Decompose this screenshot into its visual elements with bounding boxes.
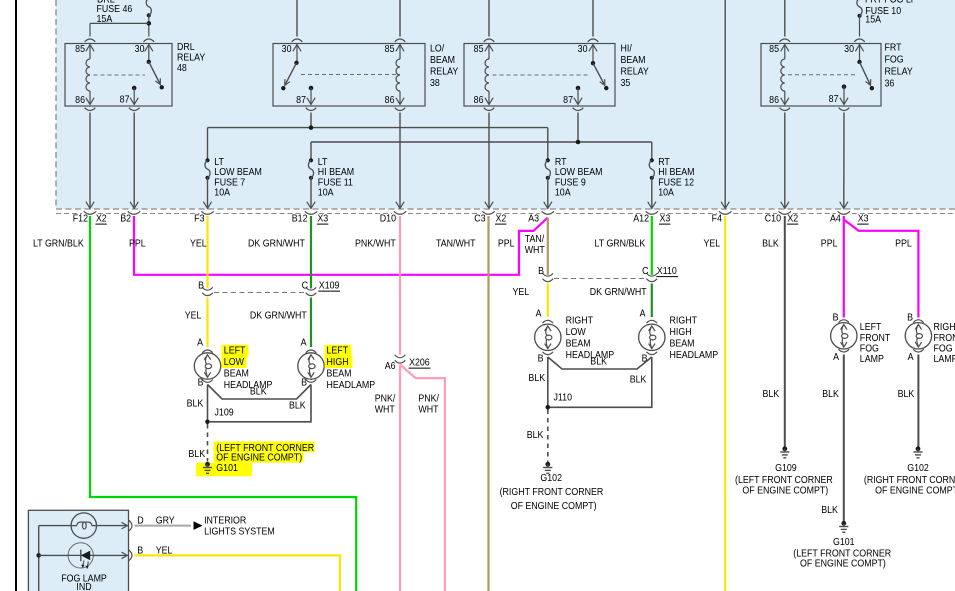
- svg-text:A: A: [833, 351, 839, 363]
- junction rail: [36, 553, 41, 558]
- svg-text:X110: X110: [657, 265, 677, 277]
- relay box FRT FOG 36: [761, 44, 881, 107]
- terminal cap right low A: [543, 320, 554, 323]
- svg-text:G101: G101: [216, 462, 238, 474]
- wire fuse9 to A3: [547, 178, 549, 207]
- svg-text:A: A: [536, 308, 542, 320]
- svg-text:YEL: YEL: [190, 238, 207, 250]
- svg-text:10A: 10A: [318, 187, 334, 199]
- svg-text:BLK: BLK: [250, 386, 267, 398]
- wire LED to B pin: [93, 554, 126, 556]
- svg-text:BLK: BLK: [821, 504, 838, 516]
- wire DRL87 to B2: [133, 113, 135, 208]
- svg-text:BLK: BLK: [763, 388, 780, 400]
- svg-text:TAN/WHT: TAN/WHT: [436, 238, 476, 250]
- svg-text:LOW: LOW: [224, 356, 245, 368]
- HI internal dashed link: [493, 74, 590, 76]
- svg-text:BLK: BLK: [187, 398, 204, 410]
- svg-text:BLK: BLK: [590, 356, 607, 368]
- terminal cap left fog B: [839, 320, 850, 323]
- svg-text:HIGH: HIGH: [327, 356, 349, 368]
- wire GRY to interior lights: [135, 525, 192, 527]
- wire fuse46 branch to pin85: [90, 22, 149, 24]
- svg-text:38: 38: [430, 77, 440, 89]
- wire YEL F3: [206, 216, 208, 289]
- svg-text:FOG: FOG: [885, 54, 904, 66]
- FOG LAMP IND box: [28, 510, 128, 591]
- wire BLK right fog: [917, 355, 919, 448]
- connector X110 C terminal: [647, 273, 658, 276]
- svg-text:HI/: HI/: [621, 43, 633, 55]
- connector X110 B terminal: [543, 273, 554, 276]
- fuse F10 FRT FOG FUSE 10 15A: [857, 0, 861, 1]
- svg-text:C10: C10: [765, 213, 781, 225]
- svg-text:10A: 10A: [214, 187, 230, 199]
- svg-text:FRT: FRT: [885, 42, 902, 54]
- terminal cap HI pin30: [588, 39, 599, 42]
- svg-text:86: 86: [385, 94, 395, 106]
- svg-text:LT GRN/BLK: LT GRN/BLK: [33, 238, 84, 250]
- svg-text:G102: G102: [907, 462, 929, 474]
- junction J110: [546, 405, 551, 410]
- highlight LEFT LOW: [222, 345, 249, 357]
- block left dashed border: [55, 0, 57, 209]
- wire BLK right lamps link: [548, 357, 652, 369]
- fuse F11 LT HI BEAM FUSE 11 10A: [309, 158, 313, 162]
- wire BLK left lamps link: [208, 385, 312, 400]
- terminal cap FOG pin85: [780, 39, 791, 42]
- wire DK GRN/WHT to left high lamp: [310, 298, 312, 348]
- svg-text:BLK: BLK: [188, 448, 205, 460]
- wire fuse7 to F3: [207, 178, 209, 207]
- wire BLK right low down: [547, 357, 549, 406]
- svg-text:J110: J110: [554, 392, 573, 404]
- indicator lamp symbol: [71, 513, 96, 538]
- FOG pin 87: [842, 84, 847, 89]
- terminal cup exit x=843.8: [838, 211, 850, 214]
- connector row dashed line: [56, 213, 82, 215]
- svg-text:85: 85: [75, 43, 85, 55]
- wire bus to fuse7: [207, 128, 209, 159]
- svg-text:G109: G109: [775, 462, 797, 474]
- svg-text:PPL: PPL: [129, 238, 146, 250]
- svg-text:F3: F3: [194, 213, 204, 225]
- wire fuse11 to B12: [310, 178, 312, 207]
- svg-text:86: 86: [75, 94, 85, 106]
- svg-text:B: B: [538, 353, 544, 365]
- HI switch: [589, 45, 597, 52]
- svg-text:35: 35: [621, 77, 631, 89]
- wire bus to fuse9: [547, 128, 549, 159]
- relay box DRL 48: [65, 44, 172, 107]
- lamp LEFT HIGH BEAM HEADLAMP: [298, 353, 324, 379]
- svg-text:HEADLAMP: HEADLAMP: [327, 379, 376, 391]
- wire bus to fuse12: [651, 142, 653, 159]
- low beam bus: [208, 127, 548, 129]
- svg-text:OF ENGINE COMPT): OF ENGINE COMPT): [875, 485, 955, 497]
- fuse F9 RT LOW BEAM FUSE 9 10A: [546, 158, 550, 162]
- terminal cap DRL pin85: [85, 39, 96, 42]
- terminal cup exit x=207.5: [201, 211, 213, 214]
- svg-text:BEAM: BEAM: [566, 338, 591, 350]
- arrow interior lights system: [194, 521, 203, 530]
- power distribution block (shaded area): [56, 0, 955, 209]
- wire rail to LED: [39, 554, 68, 556]
- svg-text:A3: A3: [528, 213, 539, 225]
- svg-text:F12: F12: [73, 213, 88, 225]
- wire LT GRN/BLK F12: [90, 216, 356, 591]
- svg-text:87: 87: [563, 94, 573, 106]
- svg-text:X206: X206: [409, 357, 430, 369]
- relay box HI BEAM 35: [464, 44, 615, 107]
- terminal cup exit x=784.8: [779, 211, 791, 214]
- LO switch: [293, 45, 301, 52]
- svg-text:A4: A4: [830, 213, 841, 225]
- svg-text:PPL: PPL: [498, 238, 515, 250]
- connector X109 B terminal: [202, 287, 213, 290]
- wire feed HI pin30: [592, 0, 594, 37]
- terminal cup right low B: [543, 352, 554, 355]
- svg-text:PNK/WHT: PNK/WHT: [355, 238, 396, 250]
- connector X206: [395, 355, 406, 358]
- svg-text:87: 87: [829, 93, 839, 105]
- wire lamp to D pin: [96, 525, 126, 527]
- svg-text:10A: 10A: [555, 187, 571, 199]
- wire BLK J110 to G102 dashed: [547, 410, 549, 464]
- ground G109: [782, 446, 787, 451]
- wire fuse12 to A12: [651, 178, 653, 207]
- svg-text:G102: G102: [540, 472, 562, 484]
- wire DRL86 to F12: [89, 113, 91, 208]
- terminal cup LO pin87: [306, 108, 317, 111]
- terminal cap DRL pin30: [144, 39, 155, 42]
- svg-text:HEADLAMP: HEADLAMP: [670, 349, 719, 361]
- svg-text:WHT: WHT: [375, 404, 395, 416]
- svg-text:J109: J109: [215, 407, 234, 419]
- svg-text:C: C: [642, 265, 648, 277]
- svg-text:B2: B2: [120, 213, 131, 225]
- hi beam bus: [311, 141, 652, 143]
- wire bus to fuse11: [310, 142, 312, 159]
- svg-text:A: A: [640, 308, 646, 320]
- svg-text:A: A: [301, 337, 307, 349]
- fuse F7 LT LOW BEAM FUSE 7 10A: [205, 158, 209, 162]
- wire YEL to right low lamp: [547, 284, 549, 318]
- svg-text:RELAY: RELAY: [621, 66, 650, 78]
- highlight G101 text: [214, 442, 315, 453]
- wire LT GRN/BLK A12: [651, 216, 653, 275]
- connector X110 dashed: [554, 278, 645, 280]
- svg-text:B: B: [833, 312, 839, 324]
- svg-text:LAMP: LAMP: [860, 353, 884, 365]
- svg-text:86: 86: [474, 94, 484, 106]
- terminal cap right fog B: [913, 320, 924, 323]
- svg-text:OF ENGINE COMPT): OF ENGINE COMPT): [511, 500, 597, 512]
- wire YEL to left low lamp: [206, 298, 208, 348]
- terminal cap LO pin85: [395, 39, 406, 42]
- wire BLK left low down: [207, 385, 209, 421]
- lamp RIGHT LOW BEAM HEADLAMP: [535, 324, 561, 350]
- terminal cup right high B: [647, 352, 658, 355]
- svg-text:BLK: BLK: [289, 400, 306, 412]
- svg-text:85: 85: [474, 43, 484, 55]
- svg-text:(RIGHT FRONT CORNER: (RIGHT FRONT CORNER: [500, 486, 604, 498]
- svg-text:X3: X3: [858, 213, 869, 225]
- terminal B pin: [129, 550, 132, 561]
- fuse F12r RT HI BEAM FUSE 12 10A: [650, 158, 654, 162]
- svg-text:OF ENGINE COMPT): OF ENGINE COMPT): [800, 558, 886, 570]
- svg-text:RIGHT: RIGHT: [566, 315, 594, 327]
- svg-text:OF ENGINE COMPT): OF ENGINE COMPT): [742, 485, 828, 497]
- svg-text:X109: X109: [319, 280, 340, 292]
- svg-text:RIGHT: RIGHT: [670, 315, 698, 327]
- svg-text:30: 30: [135, 43, 145, 55]
- lamp RIGHT FRONT FOG LAMP: [905, 323, 931, 349]
- svg-text:B12: B12: [292, 213, 308, 225]
- wire HI86 to C3: [488, 113, 490, 208]
- wire feed HI pin85: [488, 0, 490, 37]
- wire PPL A4 right fog branch: [844, 220, 919, 318]
- ground G102 right: [916, 446, 921, 451]
- terminal cup FOG pin86: [780, 108, 791, 111]
- svg-text:C3: C3: [474, 213, 485, 225]
- svg-text:87: 87: [296, 94, 306, 106]
- FOG coil: [781, 45, 789, 52]
- terminal D pin: [129, 520, 132, 531]
- terminal cap left high A: [306, 350, 317, 353]
- terminal cup exit x=488.5: [482, 211, 494, 214]
- svg-text:BEAM: BEAM: [621, 54, 646, 66]
- relay box LO BEAM 38: [273, 44, 425, 107]
- terminal cup left low B: [202, 380, 213, 383]
- svg-text:BLK: BLK: [898, 388, 915, 400]
- svg-text:85: 85: [769, 43, 779, 55]
- HI coil: [485, 45, 493, 52]
- wire TAN/WHT C3: [487, 216, 489, 591]
- svg-text:BLK: BLK: [822, 388, 839, 400]
- FOG switch: [855, 45, 863, 52]
- svg-text:LT GRN/BLK: LT GRN/BLK: [595, 238, 646, 250]
- svg-text:BLK: BLK: [630, 374, 647, 386]
- wire feed LO pin30: [296, 0, 298, 37]
- svg-text:LIGHTS SYSTEM: LIGHTS SYSTEM: [204, 526, 275, 538]
- wire rail: [38, 526, 40, 591]
- svg-text:RELAY: RELAY: [885, 66, 914, 78]
- wire BLK left high down: [210, 385, 311, 422]
- svg-text:X2: X2: [787, 213, 798, 225]
- svg-text:A: A: [197, 337, 203, 349]
- svg-text:DK GRN/WHT: DK GRN/WHT: [590, 286, 647, 298]
- svg-text:G101: G101: [833, 536, 855, 548]
- wire YEL ind: [135, 555, 340, 591]
- svg-text:BEAM: BEAM: [670, 338, 695, 350]
- svg-text:B: B: [538, 265, 544, 277]
- DRL coil: [86, 45, 94, 52]
- connector X109 C terminal: [306, 287, 317, 290]
- terminal cup exit x=90: [84, 211, 96, 214]
- svg-text:YEL: YEL: [704, 238, 721, 250]
- svg-text:LO/: LO/: [430, 43, 445, 55]
- svg-text:X2: X2: [96, 213, 107, 225]
- junction J109: [205, 420, 210, 425]
- LED indicator symbol: [68, 543, 93, 568]
- svg-text:LOW: LOW: [566, 326, 587, 338]
- DRL internal dashed link: [94, 74, 146, 76]
- wire LO87 to low-beam bus: [310, 113, 312, 128]
- fuse F46 DRL FUSE 46 15A: [147, 0, 151, 1]
- svg-text:D10: D10: [380, 213, 396, 225]
- svg-text:BEAM: BEAM: [327, 368, 352, 380]
- svg-text:86: 86: [769, 94, 779, 106]
- svg-text:WHT: WHT: [418, 404, 438, 416]
- svg-text:RELAY: RELAY: [430, 66, 459, 78]
- terminal cup left high B: [306, 380, 317, 383]
- wire DK GRN/WHT to right high lamp: [651, 284, 653, 318]
- svg-text:B: B: [198, 280, 204, 292]
- ground G101 right: [841, 521, 846, 526]
- terminal cup right fog A: [913, 349, 924, 352]
- svg-text:LEFT: LEFT: [224, 345, 246, 357]
- svg-text:48: 48: [177, 62, 187, 74]
- svg-text:87: 87: [120, 94, 130, 106]
- svg-text:BEAM: BEAM: [224, 368, 249, 380]
- LO internal dashed link: [301, 74, 396, 76]
- svg-text:BLK: BLK: [528, 372, 545, 384]
- svg-text:85: 85: [385, 43, 395, 55]
- wire HI87 to hi-beam bus: [577, 113, 579, 143]
- wire TAN/WHT A3: [547, 218, 549, 276]
- svg-text:YEL: YEL: [513, 286, 530, 298]
- terminal cup exit x=725.2: [719, 211, 731, 214]
- terminal cup DRL pin87: [129, 108, 140, 111]
- terminal cup exit x=547.8: [542, 211, 554, 214]
- svg-text:30: 30: [282, 43, 292, 55]
- page border: [15, 0, 17, 591]
- svg-text:BLK: BLK: [527, 429, 544, 441]
- wire FOG87 to A4: [843, 113, 845, 208]
- wire BLK J109 to G101 dashed: [207, 424, 209, 462]
- wire PNK/WHT below X206: [399, 365, 401, 591]
- svg-text:X3: X3: [660, 213, 671, 225]
- svg-text:BEAM: BEAM: [430, 54, 455, 66]
- svg-text:WHT: WHT: [525, 244, 545, 256]
- svg-text:B: B: [907, 312, 913, 324]
- svg-text:LAMP: LAMP: [934, 353, 955, 365]
- svg-text:10A: 10A: [658, 187, 674, 199]
- svg-text:15A: 15A: [865, 14, 881, 26]
- terminal cup exit x=651.8: [646, 211, 658, 214]
- block bottom dashed border: [56, 208, 955, 210]
- terminal cup exit x=134: [128, 211, 140, 214]
- wire BLK right high down: [550, 357, 652, 407]
- wire BLK left fog: [843, 355, 845, 522]
- HI pin 87: [576, 86, 581, 91]
- svg-text:A: A: [908, 351, 914, 363]
- wire F4 feed: [724, 0, 726, 207]
- terminal cap FOG pin30: [854, 39, 865, 42]
- svg-text:A6: A6: [385, 360, 396, 372]
- svg-text:PPL: PPL: [821, 238, 838, 250]
- wire feed LO pin85: [399, 0, 401, 37]
- terminal cup FOG pin87: [839, 108, 850, 111]
- svg-text:30: 30: [578, 43, 588, 55]
- svg-text:DK GRN/WHT: DK GRN/WHT: [248, 238, 305, 250]
- svg-text:A12: A12: [633, 213, 649, 225]
- svg-text:30: 30: [844, 43, 854, 55]
- terminal cap right high A: [647, 320, 658, 323]
- lamp LEFT FRONT FOG LAMP: [831, 323, 857, 349]
- wire YEL F4: [724, 216, 726, 591]
- wire PPL B2 to A3: [134, 216, 548, 275]
- terminal cup exit x=400: [394, 211, 406, 214]
- terminal cup HI pin87: [573, 108, 584, 111]
- wire DK GRN/WHT B12: [310, 216, 312, 289]
- svg-text:B: B: [198, 377, 204, 389]
- connector X109 dashed: [214, 292, 304, 294]
- wire PNK/WHT D10: [399, 216, 401, 355]
- highlight LEFT HIGH: [325, 345, 352, 357]
- lamp LEFT LOW BEAM HEADLAMP: [194, 353, 220, 379]
- DRL pin 87: [132, 86, 137, 91]
- svg-text:PPL: PPL: [895, 238, 912, 250]
- LO coil: [396, 45, 404, 52]
- terminal cup DRL pin86: [85, 108, 96, 111]
- ground G102 mid: [545, 462, 550, 467]
- terminal cap LO pin30: [292, 39, 303, 42]
- wire LO86 to D10: [399, 113, 401, 208]
- wire feed FOG pin85: [784, 0, 786, 37]
- wire FOG86 to C10: [784, 113, 786, 208]
- svg-text:X3: X3: [317, 213, 328, 225]
- FOG internal dashed link: [788, 74, 856, 76]
- terminal cap HI pin85: [484, 39, 495, 42]
- svg-text:LEFT: LEFT: [327, 345, 349, 357]
- terminal cup left fog A: [839, 349, 850, 352]
- wire BLK C10: [784, 216, 786, 447]
- svg-text:YEL: YEL: [185, 310, 202, 322]
- svg-text:F4: F4: [712, 213, 723, 225]
- wire PNK/WHT branch: [400, 365, 445, 591]
- svg-text:X2: X2: [496, 213, 507, 225]
- svg-text:IND: IND: [76, 581, 91, 591]
- svg-text:HIGH: HIGH: [670, 326, 692, 338]
- terminal cup HI pin86: [484, 108, 495, 111]
- svg-text:DK GRN/WHT: DK GRN/WHT: [250, 310, 307, 322]
- DRL switch: [145, 45, 153, 52]
- wire PPL A4 left fog: [843, 216, 845, 318]
- terminal cap left low A: [202, 350, 213, 353]
- terminal cup exit x=311: [305, 211, 317, 214]
- terminal cup LO pin86: [395, 108, 406, 111]
- svg-text:C: C: [302, 280, 308, 292]
- lamp RIGHT HIGH BEAM HEADLAMP: [639, 324, 665, 350]
- svg-text:BLK: BLK: [762, 238, 779, 250]
- wire lamp to rail: [39, 525, 71, 527]
- ground G101 left: [205, 462, 210, 467]
- LO pin 87: [309, 86, 314, 91]
- svg-text:36: 36: [885, 78, 895, 90]
- svg-text:B: B: [301, 377, 307, 389]
